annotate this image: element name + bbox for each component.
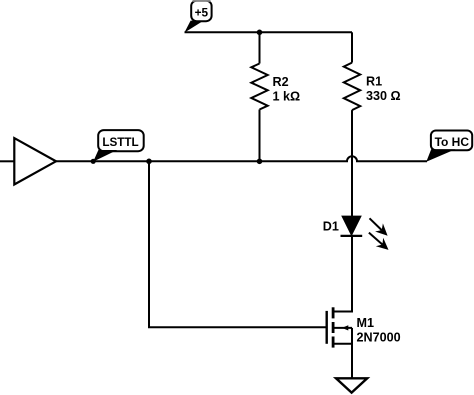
wire LED cathode to drain [334, 237, 353, 312]
LED light arrow 1 [370, 218, 388, 236]
wire R2 top lead [259, 32, 261, 63]
LED light arrow 2 [369, 233, 389, 250]
LED D1 triangle [342, 216, 361, 235]
svg-text:To HC: To HC [435, 135, 470, 149]
transistor M1 source channel bar [332, 337, 335, 348]
LED D1 cathode bar [341, 235, 363, 237]
svg-text:+5: +5 [195, 6, 209, 20]
ground [336, 378, 367, 392]
transistor M1 body arrow [334, 325, 353, 330]
node A (gate branch) [146, 159, 152, 165]
resistor R2 [251, 64, 267, 110]
transistor M1 body channel bar [332, 322, 335, 333]
+5 callout balloon [184, 0, 211, 33]
wire buffer output to To HC (hop over R1 line) [56, 156, 427, 161]
svg-text:1 kΩ: 1 kΩ [273, 90, 301, 104]
wire input to buffer [0, 160, 14, 162]
wire R1 top lead [351, 32, 353, 62]
op-amp U1 buffer triangle [14, 138, 56, 184]
resistor R1 [344, 63, 360, 111]
wire +5 rail [185, 31, 353, 33]
transistor M1 drain channel bar [332, 307, 335, 318]
To HC callout balloon [426, 131, 472, 162]
svg-text:2N7000: 2N7000 [357, 330, 401, 344]
svg-text:M1: M1 [357, 316, 375, 330]
wire node A down to gate [149, 161, 327, 327]
svg-text:R2: R2 [273, 75, 289, 89]
wire R1 bottom lead to LED (passes under hop) [351, 110, 353, 216]
LSTTL callout balloon [93, 130, 144, 162]
svg-text:R1: R1 [366, 75, 382, 89]
node LSTTL tap [91, 159, 96, 164]
node R2 bottom junction [257, 159, 263, 165]
transistor M1 gate line [326, 311, 328, 344]
wire source stub [334, 343, 353, 345]
svg-text:D1: D1 [323, 220, 339, 234]
wire R2 bottom lead [259, 110, 261, 162]
node +5 rail / R2 junction [257, 30, 263, 36]
svg-text:LSTTL: LSTTL [102, 136, 138, 149]
wire body/source to ground [351, 328, 353, 378]
svg-text:330 Ω: 330 Ω [366, 89, 401, 103]
